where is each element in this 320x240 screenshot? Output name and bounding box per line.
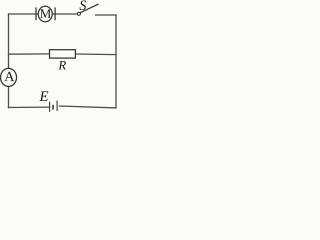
wire: right vertical <box>115 15 117 108</box>
battery E long plate right <box>56 101 58 111</box>
switch S blade (open) <box>80 4 98 13</box>
ammeter A label <box>4 72 14 81</box>
resistor R box <box>50 50 76 58</box>
motor M label <box>40 9 51 18</box>
battery E long plate left <box>49 102 51 112</box>
motor M brush bar right <box>54 7 56 20</box>
ammeter A circle <box>1 68 17 86</box>
wire: middle branch right (resistor to right wire junction) <box>75 53 116 56</box>
wire: bottom right (battery to right corner) <box>59 106 116 108</box>
wire: left vertical upper (top corner to ammeter) <box>8 14 10 68</box>
wire: top right (switch to right corner) <box>96 14 116 16</box>
motor M circle <box>38 6 52 22</box>
wire: middle branch left (left wire junction to resistor) <box>9 53 50 55</box>
wire: left vertical lower (ammeter to bottom corner) <box>8 87 10 108</box>
wire: motor to switch <box>52 13 77 15</box>
wire: top horizontal, left corner to motor <box>9 13 39 15</box>
switch S label <box>80 0 87 9</box>
motor M brush bar left <box>35 7 37 20</box>
battery E label <box>39 91 48 101</box>
wire: bottom left (corner to battery) <box>9 106 50 108</box>
battery E short thick plate (middle) <box>52 105 54 110</box>
resistor R label <box>58 61 66 69</box>
switch S pivot contact circle <box>77 12 80 15</box>
